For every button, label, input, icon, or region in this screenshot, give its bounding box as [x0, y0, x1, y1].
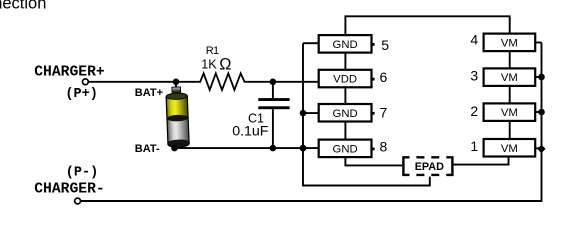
wire pin chain VDD-GND7 [344, 87, 346, 104]
wire pin chain GND5-VDD [344, 53, 346, 70]
svg-text:7: 7 [380, 104, 388, 120]
wire GND8 to EPAD [345, 157, 402, 165]
svg-text:BAT+: BAT+ [135, 87, 163, 99]
wire CHARGER- to VM bus [81, 200, 542, 202]
svg-text:nection: nection [0, 0, 46, 12]
terminal CHARGER- [75, 198, 81, 204]
svg-text:1: 1 [470, 138, 478, 154]
junction BAT- [171, 145, 178, 152]
svg-text:(P+): (P+) [65, 87, 97, 102]
svg-text:6: 6 [380, 69, 388, 85]
wire VM bus vertical (right) [541, 43, 543, 201]
junction bus GND8 / BAT- [300, 145, 307, 152]
svg-text:VM: VM [501, 107, 518, 119]
svg-text:3: 3 [470, 67, 478, 83]
pin box GND 8 [319, 140, 372, 158]
junction BAT+ [173, 79, 180, 86]
wire BAT+ lead [175, 82, 177, 90]
svg-text:2: 2 [470, 103, 478, 119]
pin box GND 7 [319, 104, 372, 122]
wire VM1 to EPAD [454, 157, 509, 165]
wire CHARGER+ to R1 [89, 81, 197, 83]
svg-text:GND: GND [333, 143, 358, 155]
pin box GND 5 [319, 35, 372, 53]
pin stub 8 [372, 147, 375, 150]
svg-text:VM: VM [501, 143, 518, 155]
wire pin chain VM2-VM1 [509, 121, 511, 139]
svg-text:(P-): (P-) [66, 165, 98, 180]
wire R1 to VDD [248, 81, 320, 83]
svg-text:CHARGER+: CHARGER+ [34, 64, 105, 80]
pin box VM 2 [484, 103, 536, 121]
junction bus VM1 (diamond) [537, 145, 545, 153]
svg-text:GND: GND [333, 108, 358, 120]
svg-text:0.1uF: 0.1uF [232, 124, 269, 140]
junction bus VM2 [538, 109, 545, 116]
svg-text:1K: 1K [201, 57, 217, 71]
pin stub 5 [372, 43, 375, 46]
svg-text:VDD: VDD [333, 74, 357, 86]
pin stub 6 [372, 78, 375, 81]
wire top interconnect GND5 to VM4 [345, 16, 509, 35]
svg-text:R1: R1 [206, 45, 219, 57]
wire GND bus vertical (left) [303, 43, 430, 185]
svg-text:VM: VM [501, 37, 518, 49]
wire BAT- to GND8 (ground rail) [175, 147, 321, 149]
battery BT1 [166, 87, 189, 148]
capacitor C1 [272, 82, 274, 99]
svg-text:8: 8 [380, 139, 388, 155]
pin box VDD 6 [319, 70, 372, 88]
junction C1 bottom [270, 145, 277, 152]
terminal CHARGER+ [83, 79, 89, 85]
wire BAT- lead [176, 142, 178, 148]
pad EPAD (dashed) [403, 157, 409, 175]
wire GND5 to bus [303, 42, 319, 44]
wire VM3 stub to bus [535, 76, 541, 78]
svg-text:GND: GND [333, 39, 358, 51]
wire pin chain VM4-VM3 [509, 51, 511, 68]
svg-text:5: 5 [381, 37, 389, 53]
svg-text:Ω: Ω [219, 55, 231, 73]
junction C1 top [270, 79, 277, 86]
junction bus GND7 [300, 110, 307, 117]
wire VM4 stub to bus [535, 42, 541, 44]
wire bus to GND7 [303, 112, 320, 114]
wire VM2 stub to bus [535, 111, 541, 113]
svg-text:BAT-: BAT- [135, 143, 160, 155]
wire VM1 stub to bus [535, 147, 541, 149]
pin box VM 3 [484, 68, 536, 86]
svg-text:4: 4 [470, 32, 478, 48]
wire pin chain VM3-VM2 [509, 86, 511, 104]
wire pin chain GND7-GND8 [344, 122, 346, 140]
svg-text:VM: VM [501, 72, 518, 84]
resistor R1 [197, 73, 248, 90]
svg-text:EPAD: EPAD [415, 161, 444, 173]
pin stub 7 [372, 112, 375, 115]
junction bus VM3 [538, 74, 545, 81]
pin box VM 1 [484, 139, 536, 157]
pin box VM 4 [484, 34, 536, 52]
svg-text:CHARGER-: CHARGER- [34, 181, 105, 197]
